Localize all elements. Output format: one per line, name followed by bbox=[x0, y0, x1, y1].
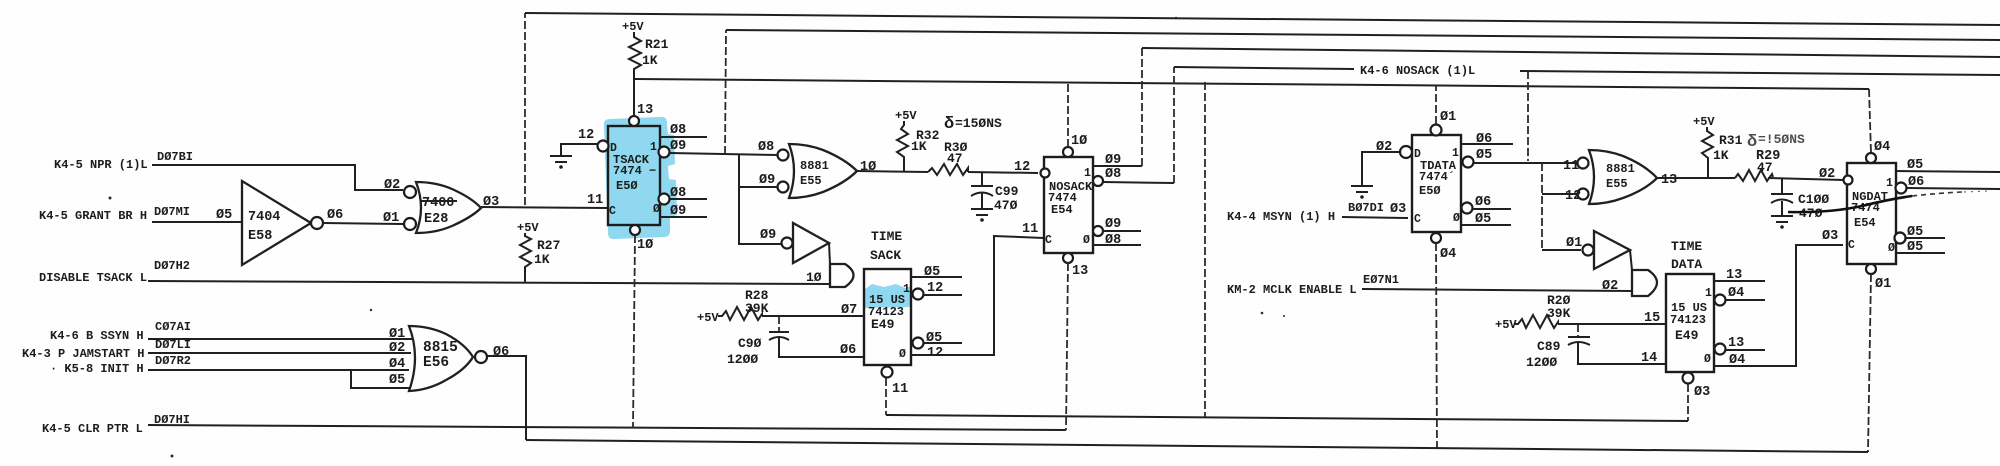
svg-text:Ø8: Ø8 bbox=[758, 140, 774, 155]
ground below C99 bbox=[971, 209, 993, 222]
NGDAT output stub Ø5 bottom bbox=[1895, 225, 1946, 244]
svg-text:Ø1: Ø1 bbox=[1440, 110, 1456, 125]
wire NOSACK pin 10 up to pullup bus bbox=[1068, 81, 1087, 149]
svg-text:Ø5: Ø5 bbox=[1476, 148, 1492, 163]
wire KM-2 MCLK ENABLE to AND gate bbox=[1362, 289, 1632, 291]
svg-text:Ø7: Ø7 bbox=[841, 303, 857, 318]
svg-text:Ø9: Ø9 bbox=[760, 228, 776, 243]
svg-text:15: 15 bbox=[1644, 311, 1660, 326]
svg-text:12: 12 bbox=[578, 128, 594, 143]
svg-text:C1ØØ: C1ØØ bbox=[1798, 192, 1829, 207]
NGDAT pin 1 output Ø6 bbox=[1907, 175, 2000, 190]
svg-text:K4-6 NOSACK (1)L: K4-6 NOSACK (1)L bbox=[1360, 64, 1475, 78]
NGDAT output stub Ø5 top bbox=[1896, 158, 2000, 173]
svg-text:Ø5: Ø5 bbox=[1907, 158, 1923, 173]
svg-text:8881: 8881 bbox=[800, 159, 829, 173]
svg-text:Ø8: Ø8 bbox=[670, 186, 686, 201]
svg-text:12: 12 bbox=[927, 346, 943, 361]
wire E28 output Ø3 to TSACK pin 11 (C) bbox=[481, 193, 607, 210]
svg-text:47Ø: 47Ø bbox=[1799, 206, 1823, 221]
svg-text:39K: 39K bbox=[745, 301, 769, 316]
wire INIT branch to 4th input bbox=[351, 370, 410, 388]
ground at TSACK pin 12 bbox=[550, 144, 597, 169]
svg-text:Ø: Ø bbox=[1704, 353, 1711, 366]
svg-text:DATA: DATA bbox=[1671, 257, 1702, 272]
svg-text:8881: 8881 bbox=[1606, 162, 1635, 176]
svg-text:11: 11 bbox=[892, 382, 908, 397]
svg-text:DØ7H2: DØ7H2 bbox=[154, 259, 190, 273]
svg-text:EØ7N1: EØ7N1 bbox=[1363, 273, 1399, 287]
capacitor C89 1200 bbox=[1526, 324, 1666, 370]
svg-text:Ø3: Ø3 bbox=[483, 195, 499, 210]
svg-text:Ø5: Ø5 bbox=[926, 331, 942, 346]
buffer with inverted input Ø1 bbox=[1566, 231, 1630, 269]
svg-text:DØ7R2: DØ7R2 bbox=[155, 354, 191, 368]
flip-flop NGDAT 7474 E54 bbox=[1844, 153, 1907, 274]
resistor R29 47 bbox=[1735, 170, 1773, 181]
svg-text:11: 11 bbox=[1022, 222, 1038, 237]
flip-flop NOSACK 7474 E54 bbox=[1014, 147, 1103, 263]
wire R20 to E49 pin 15 bbox=[1558, 311, 1666, 326]
TSACK output stub Ø8 top bbox=[660, 123, 707, 138]
inverter E58 7404 bbox=[242, 181, 323, 265]
svg-text:E5Ø: E5Ø bbox=[1419, 184, 1441, 198]
svg-text:Ø4: Ø4 bbox=[389, 357, 405, 372]
svg-text:13: 13 bbox=[637, 103, 653, 118]
svg-text:C: C bbox=[1848, 239, 1855, 252]
svg-text:1Ø: 1Ø bbox=[1071, 134, 1087, 149]
svg-text:11: 11 bbox=[587, 193, 603, 208]
delay spec delta=150NS bbox=[944, 115, 1002, 134]
svg-text:Ø4: Ø4 bbox=[1729, 353, 1745, 368]
svg-text:Ø1: Ø1 bbox=[1875, 277, 1891, 292]
highlight over "15 US" label of one-shot E49 bbox=[864, 284, 911, 308]
svg-text:12ØØ: 12ØØ bbox=[1526, 355, 1557, 370]
wire node A: TSACK clock to top bus bbox=[525, 13, 2000, 205]
svg-text:DØ7MI: DØ7MI bbox=[154, 205, 190, 219]
svg-text:7400: 7400 bbox=[422, 196, 454, 211]
svg-text:KM-2 MCLK ENABLE L: KM-2 MCLK ENABLE L bbox=[1227, 283, 1357, 297]
wire TDATA pin Ø4 down to preset bus bbox=[1436, 243, 1456, 449]
flip-flop TDATA 7474 E50 bbox=[1376, 125, 1474, 244]
wire 8881 #2 output to NGDAT D with R29 bbox=[1657, 149, 1844, 180]
net label DISABLE TSACK L bbox=[39, 259, 190, 285]
svg-text:Ø6: Ø6 bbox=[1476, 132, 1492, 147]
svg-text:Ø2: Ø2 bbox=[389, 341, 405, 356]
wire K4-5 NPR to gate E28 input bbox=[152, 165, 403, 190]
svg-text:13: 13 bbox=[1661, 173, 1677, 188]
E49 pin 1 output 12 stub bbox=[913, 281, 963, 300]
wire K4-4 MSYN to TDATA pin C bbox=[1342, 217, 1408, 218]
wire junction down to 8881 input and buffer bbox=[739, 155, 781, 244]
svg-text:Ø: Ø bbox=[1453, 212, 1460, 225]
svg-text:1: 1 bbox=[1886, 177, 1893, 190]
wire junction to 8881 input 12 and buffer Ø1 bbox=[1542, 163, 1581, 250]
NOSACK output stub Ø8 bottom bbox=[1093, 233, 1141, 248]
svg-text:CØ7AI: CØ7AI bbox=[155, 320, 191, 334]
svg-text:Ø1: Ø1 bbox=[389, 327, 405, 342]
one-shot E49 74123 TIME DATA bbox=[1666, 239, 1714, 372]
svg-text:E55: E55 bbox=[1606, 177, 1628, 191]
svg-text:Ø5: Ø5 bbox=[1907, 225, 1923, 240]
svg-text:Ø2: Ø2 bbox=[1376, 140, 1392, 155]
wire 8881 output to NOSACK D with R30 bbox=[857, 171, 1038, 173]
net label K4-3 P JAMSTART H bbox=[22, 338, 191, 361]
wire preset bus L3: E56 Ø6 to NGDAT Ø1 bbox=[526, 440, 1868, 452]
svg-text:14: 14 bbox=[1641, 351, 1657, 366]
svg-text:1K: 1K bbox=[1713, 148, 1729, 163]
svg-text:13: 13 bbox=[1072, 264, 1088, 279]
resistor R20 39K with +5V bbox=[1495, 293, 1571, 332]
svg-text:BØ7DI: BØ7DI bbox=[1348, 201, 1384, 215]
svg-text:DISABLE TSACK L: DISABLE TSACK L bbox=[39, 271, 147, 285]
svg-text:Ø8: Ø8 bbox=[670, 123, 686, 138]
resistor R21 1K with +5V bbox=[622, 20, 669, 74]
and gate TIME SACK trigger bbox=[806, 243, 854, 287]
wire K4-5 CLR PTR L long line to NOSACK pin 13 bbox=[148, 425, 1066, 430]
svg-text:74123: 74123 bbox=[1670, 313, 1706, 327]
svg-text:+5V: +5V bbox=[622, 20, 644, 34]
wire K5-8 INIT to gate E56 bbox=[148, 369, 409, 371]
svg-text:Ø9: Ø9 bbox=[1105, 153, 1121, 168]
net label KM-2 MCLK ENABLE L bbox=[1227, 273, 1399, 297]
svg-text:C89: C89 bbox=[1537, 339, 1561, 354]
svg-text:Ø8: Ø8 bbox=[1105, 167, 1121, 182]
E49 output stub Ø5 top bbox=[911, 265, 962, 280]
E49 TIME DATA pin 1 output Ø4 stub bbox=[1715, 286, 1766, 306]
svg-text:1: 1 bbox=[1705, 287, 1712, 300]
svg-text:Ø9: Ø9 bbox=[759, 173, 775, 188]
wire TDATA pin 1 Ø5 to 8881 input 11 bbox=[1474, 148, 1577, 163]
buffer with inverted input Ø9 bbox=[760, 223, 829, 263]
wire NOSACK pin 13 down to clear bus bbox=[1066, 263, 1088, 430]
svg-text:1K: 1K bbox=[911, 139, 927, 154]
svg-text:12: 12 bbox=[927, 281, 943, 296]
E49 output stub Ø5 bottom bbox=[913, 331, 963, 349]
TDATA output stub Ø6 top bbox=[1461, 132, 1513, 147]
svg-text:Ø4: Ø4 bbox=[1874, 140, 1890, 155]
svg-text:Ø1: Ø1 bbox=[383, 211, 399, 226]
wire node C: NOSACK Ø9 to top bus bbox=[1093, 48, 2000, 168]
wire node D: NOSACK pin 1 Ø8 to K4-6 NOSACK (1)L bus bbox=[1103, 64, 2000, 183]
TSACK pin 1 output Ø9 wire to 8881 bbox=[670, 139, 778, 155]
flip-flop TSACK 7474 E50 bbox=[578, 116, 670, 235]
gate E28 7400 NAND bbox=[404, 182, 481, 233]
net label K4-5 NPR (1)L bbox=[54, 150, 193, 172]
wire TDATA pin Ø1 up to pullup bus bbox=[1436, 85, 1456, 125]
svg-text:Ø1: Ø1 bbox=[1566, 236, 1582, 251]
svg-text:E58: E58 bbox=[248, 229, 272, 244]
wire pullup bus down to clear bus at x=1205 bbox=[1204, 82, 1206, 418]
svg-text:Ø3: Ø3 bbox=[1822, 229, 1838, 244]
svg-text:Ø5: Ø5 bbox=[1907, 240, 1923, 255]
svg-text:Ø9: Ø9 bbox=[670, 204, 686, 219]
svg-text:1Ø: 1Ø bbox=[637, 238, 653, 253]
svg-text:Ø: Ø bbox=[1888, 242, 1895, 255]
svg-text:C99: C99 bbox=[995, 184, 1019, 199]
svg-text:R31: R31 bbox=[1719, 133, 1743, 148]
svg-text:R21: R21 bbox=[645, 37, 669, 52]
svg-text:E49: E49 bbox=[871, 317, 895, 332]
gate E56 8815 4-input NOR bbox=[389, 326, 509, 391]
svg-text:12ØØ: 12ØØ bbox=[727, 352, 758, 367]
svg-text:39K: 39K bbox=[1547, 306, 1571, 321]
svg-text:E54: E54 bbox=[1854, 216, 1876, 230]
svg-text:=!5ØNS: =!5ØNS bbox=[1758, 132, 1805, 147]
svg-text:+5V: +5V bbox=[1693, 115, 1715, 129]
wire B SSYN to gate E56 bbox=[148, 338, 413, 340]
net label K4-5 CLR PTR L bbox=[42, 413, 190, 436]
svg-text:E28: E28 bbox=[424, 212, 448, 227]
capacitor C100 470 bbox=[1771, 178, 1829, 221]
svg-text:E5Ø: E5Ø bbox=[616, 179, 638, 193]
svg-text:1Ø: 1Ø bbox=[806, 270, 822, 285]
svg-text:SACK: SACK bbox=[870, 248, 901, 263]
svg-text:Ø4: Ø4 bbox=[1440, 247, 1456, 262]
svg-text:K4-5 GRANT BR H: K4-5 GRANT BR H bbox=[39, 209, 147, 223]
svg-text:Ø4: Ø4 bbox=[1728, 286, 1744, 301]
input phase label Ø2 at NGDAT D bbox=[1819, 167, 1835, 182]
svg-text:DØ7LI: DØ7LI bbox=[155, 338, 191, 352]
svg-text:Ø2: Ø2 bbox=[384, 178, 400, 193]
wire NOSACK(1)L bus down to 8881 input node bbox=[1527, 71, 1529, 161]
capacitor C90 1200 bbox=[727, 316, 864, 367]
svg-text:+5V: +5V bbox=[697, 311, 719, 325]
svg-text:Ø6: Ø6 bbox=[1475, 195, 1491, 210]
highlight over flip-flop TSACK E50 bbox=[604, 117, 677, 239]
svg-text:Ø5: Ø5 bbox=[1475, 212, 1491, 227]
svg-text:1K: 1K bbox=[534, 252, 550, 267]
TSACK output stub Ø9 bottom bbox=[660, 204, 707, 219]
svg-text:C9Ø: C9Ø bbox=[738, 336, 762, 351]
svg-text:7474 −: 7474 − bbox=[613, 164, 656, 178]
svg-text:+5V: +5V bbox=[517, 221, 539, 235]
svg-text:11: 11 bbox=[1563, 159, 1579, 174]
svg-text:Ø2: Ø2 bbox=[1602, 279, 1618, 294]
wire inverter output Ø6 to gate E28 input Ø1 bbox=[323, 178, 403, 226]
wire R28 to E49 pin Ø7 bbox=[762, 303, 864, 318]
wire P JAMSTART to gate E56 bbox=[148, 352, 411, 354]
net label K4-6 B SSYN H bbox=[50, 320, 191, 343]
handwritten pen stroke across NGDAT bbox=[1788, 191, 1988, 212]
svg-text:1K: 1K bbox=[642, 53, 658, 68]
net label K5-8 INIT H bbox=[50, 354, 191, 376]
svg-text:E54: E54 bbox=[1051, 203, 1073, 217]
svg-text:TIME: TIME bbox=[871, 229, 902, 244]
net label K4-5 GRANT BR H bbox=[39, 205, 232, 223]
resistor R30 47 bbox=[928, 140, 968, 175]
svg-text:DØ7BI: DØ7BI bbox=[157, 150, 193, 164]
svg-text:Ø5: Ø5 bbox=[924, 265, 940, 280]
svg-text:+5V: +5V bbox=[895, 109, 917, 123]
capacitor C99 470 bbox=[971, 173, 1019, 213]
svg-text:TIME: TIME bbox=[1671, 239, 1702, 254]
svg-text:Ø2: Ø2 bbox=[1819, 167, 1835, 182]
TSACK output stub Ø8 bottom bbox=[670, 186, 707, 201]
svg-text:Ø: Ø bbox=[899, 348, 906, 361]
svg-text:Ø3: Ø3 bbox=[1694, 385, 1710, 400]
resistor R31 1K with +5V bbox=[1693, 115, 1743, 178]
wire TSACK pin 10 down to CLR PTR bus bbox=[633, 235, 653, 428]
svg-text:Ø9: Ø9 bbox=[670, 139, 686, 154]
delay spec delta=150NS (smudged) bbox=[1747, 132, 1805, 152]
svg-text:Ø9: Ø9 bbox=[1105, 217, 1121, 232]
wire E49 pin 11 down to clear bus bbox=[882, 367, 909, 416]
resistor R28 39K with +5V bbox=[697, 288, 769, 325]
one-shot E49 74123 TIME SACK bbox=[864, 229, 911, 365]
wire E49 pin 12 to NOSACK pin 11 bbox=[911, 222, 1044, 361]
resistor R27 1K with +5V bbox=[517, 221, 560, 283]
wire NGDAT pin Ø4 from pullup bus bbox=[1874, 140, 1890, 155]
svg-text:K4-6 B SSYN H: K4-6 B SSYN H bbox=[50, 329, 144, 343]
svg-text:Ø6: Ø6 bbox=[493, 345, 509, 360]
svg-text:K4-5 NPR (1)L: K4-5 NPR (1)L bbox=[54, 158, 148, 172]
svg-text:47: 47 bbox=[947, 151, 963, 166]
svg-text:7404: 7404 bbox=[248, 210, 280, 225]
svg-text:δ: δ bbox=[944, 115, 954, 134]
svg-text:Ø: Ø bbox=[1083, 234, 1090, 247]
gate E55 8881 #2 bbox=[1563, 150, 1677, 204]
wire E56 output Ø6 to bottom preset bus bbox=[487, 356, 526, 440]
svg-text:E56: E56 bbox=[423, 355, 449, 371]
resistor R32 1K with +5V bbox=[895, 109, 940, 171]
svg-text:13: 13 bbox=[1728, 336, 1744, 351]
svg-text:1Ø: 1Ø bbox=[860, 160, 876, 175]
svg-text:Ø8: Ø8 bbox=[1105, 233, 1121, 248]
svg-text:C: C bbox=[1414, 213, 1421, 226]
svg-text:1: 1 bbox=[903, 283, 910, 296]
net label K4-4 MSYN (1) H bbox=[1227, 201, 1406, 224]
TDATA output stub Ø6 bottom bbox=[1473, 195, 1511, 210]
svg-text:Ø6: Ø6 bbox=[327, 208, 343, 223]
svg-text:12: 12 bbox=[1014, 160, 1030, 175]
svg-text:Ø5: Ø5 bbox=[216, 208, 232, 223]
svg-text:K4-5 CLR PTR L: K4-5 CLR PTR L bbox=[42, 422, 143, 436]
svg-text:K4-3 P JAMSTART H: K4-3 P JAMSTART H bbox=[22, 347, 144, 361]
svg-text:Ø6: Ø6 bbox=[1908, 175, 1924, 190]
NGDAT output stub Ø5 lower bbox=[1896, 240, 1945, 255]
wire K4-5 GRANT BR to inverter bbox=[152, 221, 241, 223]
svg-text:8815: 8815 bbox=[423, 340, 458, 356]
svg-text:Ø6: Ø6 bbox=[840, 343, 856, 358]
svg-text:Ø: Ø bbox=[653, 203, 660, 216]
svg-text:E49: E49 bbox=[1675, 328, 1699, 343]
wire DISABLE TSACK L to AND gate bbox=[148, 281, 830, 284]
svg-text:C: C bbox=[1045, 234, 1052, 247]
and gate TIME DATA trigger bbox=[1602, 250, 1657, 296]
ground below C100 bbox=[1771, 216, 1793, 229]
gate E55 8881 open-collector NOR bbox=[758, 140, 876, 198]
svg-text:1: 1 bbox=[1084, 167, 1091, 180]
svg-text:Ø5: Ø5 bbox=[389, 373, 405, 388]
svg-text:E55: E55 bbox=[800, 174, 822, 188]
svg-text:13: 13 bbox=[1726, 268, 1742, 283]
svg-text:1: 1 bbox=[650, 141, 657, 154]
svg-text:R27: R27 bbox=[537, 238, 560, 253]
NOSACK output stub Ø9 bottom bbox=[1103, 217, 1141, 232]
wire E49 TIME DATA pin Ø3 down to clear bus bbox=[1683, 373, 1711, 422]
E49 TIME DATA output stub 13 bottom bbox=[1715, 336, 1766, 355]
TDATA output stub Ø5 bottom bbox=[1461, 212, 1511, 227]
svg-text:12: 12 bbox=[1565, 189, 1581, 204]
wire TSACK pin 13 to pullup bus bbox=[634, 79, 653, 118]
wire NGDAT pin Ø1 down to preset bus bbox=[1868, 274, 1891, 452]
ground at TDATA pin Ø2 bbox=[1351, 152, 1399, 199]
svg-text:Ø3: Ø3 bbox=[1390, 202, 1406, 217]
E49 TIME DATA output stub 13 top bbox=[1714, 268, 1765, 283]
svg-text:=15ØNS: =15ØNS bbox=[955, 116, 1002, 131]
svg-text:K4-4 MSYN (1) H: K4-4 MSYN (1) H bbox=[1227, 210, 1335, 224]
svg-text:C: C bbox=[609, 205, 616, 218]
svg-text:7474´: 7474´ bbox=[1419, 170, 1455, 184]
stray specks bbox=[109, 17, 1286, 458]
svg-text:47Ø: 47Ø bbox=[994, 198, 1018, 213]
wire E49 TIME DATA pin Ø4 to NGDAT clock Ø3 bbox=[1714, 229, 1843, 368]
wire node B: TSACK(1) to top bus bbox=[725, 30, 2000, 154]
wire node E: R21 pullup bus along top bbox=[634, 74, 1871, 153]
svg-text:· K5-8 INIT H: · K5-8 INIT H bbox=[50, 362, 144, 376]
wire clear bus L2: E49 pin 11 to TIME DATA Ø3 bbox=[886, 415, 1688, 421]
